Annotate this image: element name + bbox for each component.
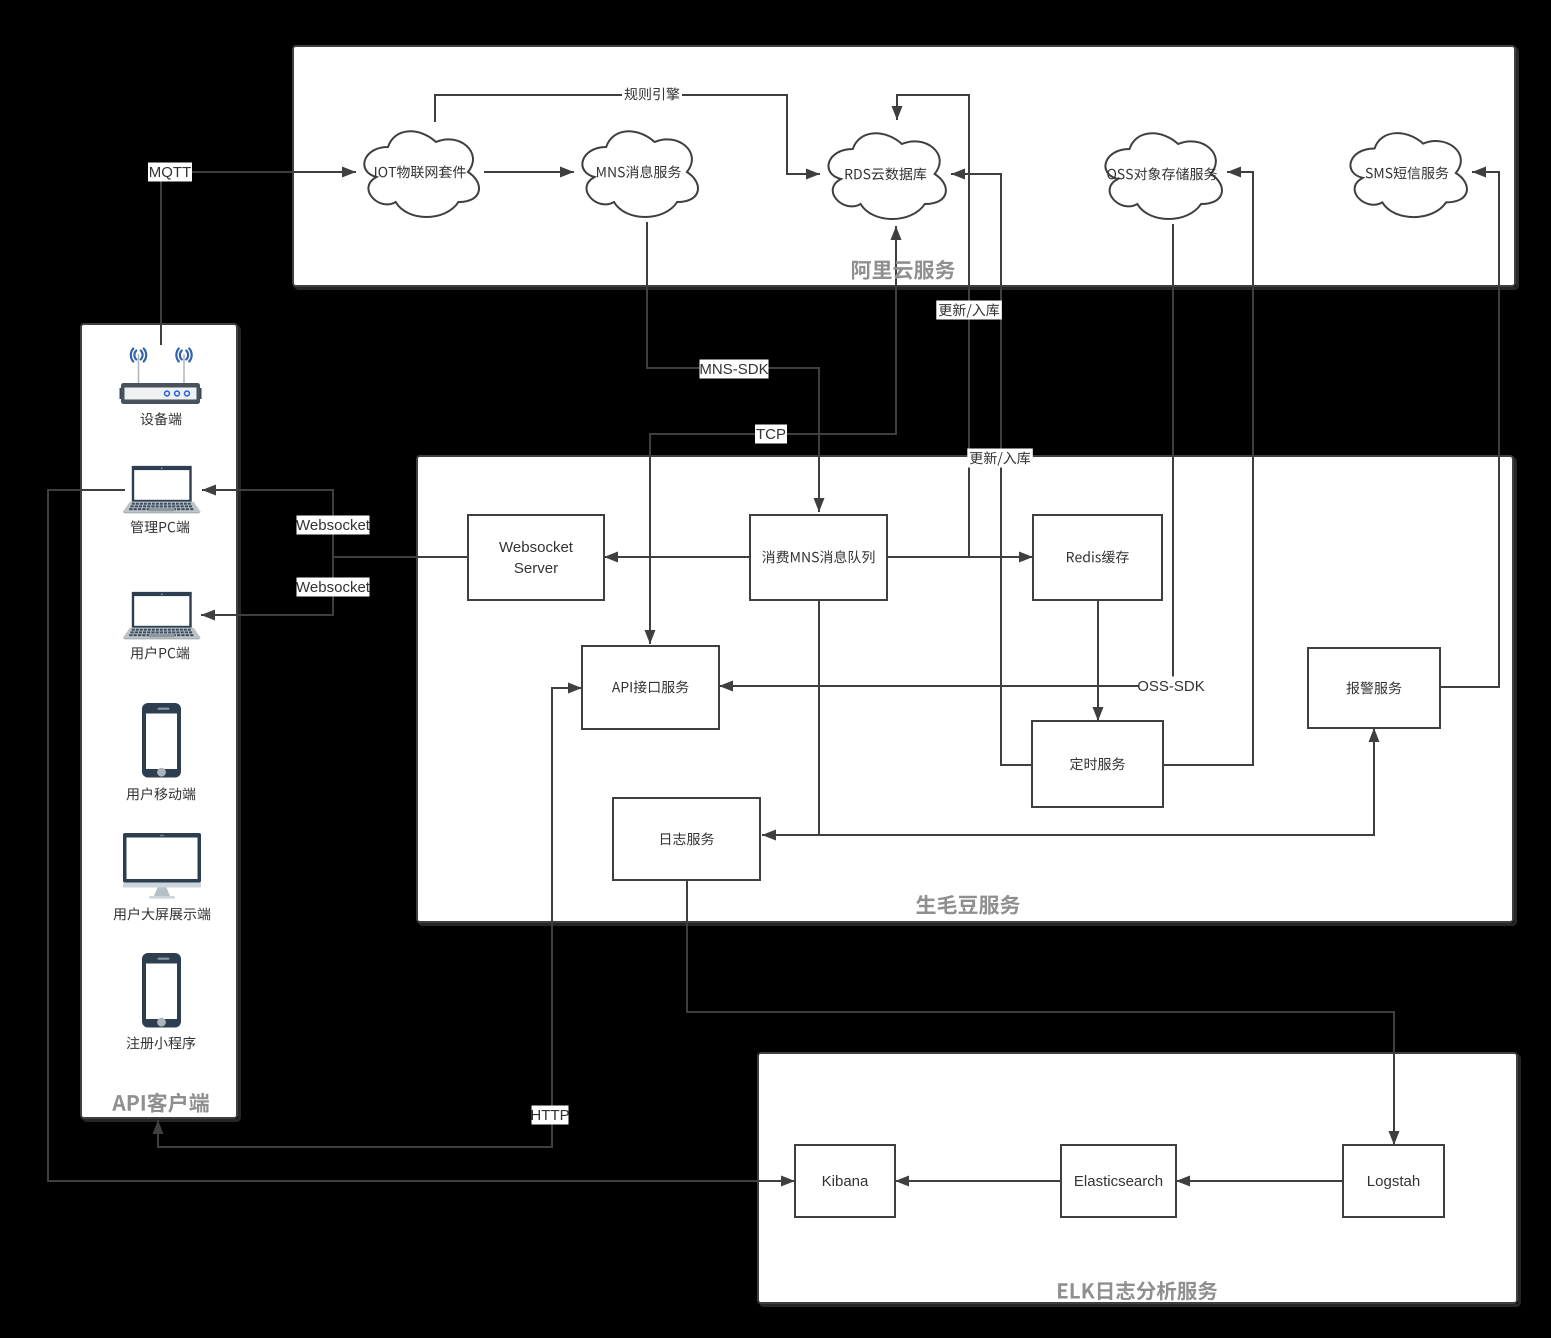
text 设备端 — [141, 412, 182, 425]
text 注册小程序 — [127, 1036, 196, 1049]
container ELK日志分析服务 — [761, 1056, 1520, 1306]
text MNS消息服务 — [597, 165, 681, 178]
text OSS对象存储服务 — [1107, 167, 1217, 180]
svg-text:Kibana: Kibana — [822, 1173, 869, 1190]
text API接口服务 — [612, 680, 689, 693]
wire TCP RDS云数据库<->API接口服务 — [650, 226, 896, 644]
svg-text:OSS-SDK: OSS-SDK — [1137, 678, 1205, 695]
cloud IOT物联网套件 — [364, 131, 479, 217]
node 消费MNS消息队列 — [750, 515, 887, 600]
wire Redis缓存->定时服务 — [1097, 600, 1099, 721]
wire 管理PC端->Kibana — [48, 490, 795, 1181]
cloud OSS对象存储服务 — [1105, 133, 1221, 219]
cloud RDS云数据库 — [829, 133, 946, 219]
label MNS-SDK — [700, 360, 769, 379]
wire 规则引擎 IOT->RDS云数据库 — [435, 95, 820, 174]
label 更新/入库 1 — [936, 301, 1002, 320]
svg-text:MQTT: MQTT — [149, 164, 192, 181]
text SMS短信服务 — [1366, 166, 1449, 179]
wire 消费MNS消息队列->Redis缓存 — [887, 556, 1033, 558]
icon 用户PC端 laptop — [123, 592, 201, 639]
title 生毛豆服务 — [916, 895, 1020, 915]
wire IOT物联网套件->MNS消息服务 — [484, 171, 574, 173]
label MQTT — [148, 163, 192, 182]
svg-text:Elasticsearch: Elasticsearch — [1074, 1173, 1163, 1190]
container 阿里云服务 — [296, 49, 1518, 289]
icon 用户大屏展示端 monitor — [123, 833, 201, 899]
wire 定时服务->OSS对象存储服务 — [1163, 172, 1253, 765]
icon 用户移动端 phone — [142, 703, 181, 778]
title API客户端 — [112, 1093, 209, 1113]
wire 更新/入库 消费MNS消息队列->RDS云数据库 — [887, 95, 969, 557]
wire 消费MNS消息队列->日志服务 — [762, 600, 819, 835]
text 报警服务 — [1346, 681, 1401, 694]
node Logstah — [1343, 1145, 1444, 1217]
icon 管理PC端 laptop — [123, 466, 201, 513]
node API接口服务 — [582, 646, 719, 729]
text 用户PC端 — [131, 646, 190, 659]
text 管理PC端 — [131, 520, 190, 533]
svg-text:Websocket: Websocket — [296, 579, 371, 596]
wire MQTT 设备端->IOT物联网套件 — [161, 172, 356, 345]
label OSS-SDK — [1140, 677, 1203, 696]
text 定时服务 — [1070, 757, 1125, 770]
wire MNS-SDK MNS消息服务->消费MNS消息队列 — [647, 222, 819, 512]
label Websocket 2 — [297, 578, 370, 597]
text Redis缓存 — [1067, 550, 1129, 563]
container 生毛豆服务 — [420, 459, 1516, 925]
svg-text:MNS-SDK: MNS-SDK — [699, 361, 768, 378]
icon 设备端 router — [120, 349, 202, 405]
wire HTTP API接口服务<->API客户端 — [158, 688, 582, 1147]
svg-text:Logstah: Logstah — [1367, 1173, 1420, 1190]
text 用户大屏展示端 — [113, 907, 210, 920]
node Kibana — [795, 1145, 895, 1217]
label TCP — [755, 425, 787, 444]
svg-text:Websocket: Websocket — [296, 517, 371, 534]
wire 报警服务->SMS短信服务 — [1440, 172, 1499, 687]
svg-text:HTTP: HTTP — [530, 1107, 569, 1124]
text 消费MNS消息队列 — [762, 550, 874, 563]
svg-text:TCP: TCP — [756, 426, 786, 443]
cloud MNS消息服务 — [582, 131, 698, 217]
wire OSS-SDK OSS对象存储服务->API接口服务 — [719, 224, 1173, 686]
text IOT物联网套件 — [375, 165, 466, 178]
wire Elasticsearch->Kibana — [895, 1180, 1061, 1182]
container API客户端 — [84, 327, 240, 1121]
node Websocket Server — [468, 515, 604, 600]
node 定时服务 — [1032, 721, 1163, 807]
label 规则引擎 — [622, 85, 682, 104]
text RDS云数据库 — [846, 167, 927, 180]
node 日志服务 — [613, 798, 760, 880]
text 用户移动端 — [126, 787, 195, 800]
wire branch 管理PC端 — [202, 490, 333, 557]
text 日志服务 — [661, 832, 714, 845]
wire branch 用户PC端 — [201, 557, 333, 615]
label 更新/入库 2 — [967, 449, 1033, 468]
title 阿里云服务 — [852, 260, 955, 280]
label HTTP — [532, 1106, 569, 1125]
node 报警服务 — [1308, 648, 1440, 728]
icon 注册小程序 phone — [142, 953, 181, 1028]
node Elasticsearch — [1061, 1145, 1176, 1217]
wire 日志服务->报警服务 — [819, 728, 1374, 835]
wire Logstah->Elasticsearch — [1176, 1180, 1343, 1182]
wire Websocket Server->管理PC端/用户PC端 trunk — [333, 556, 468, 558]
label Websocket 1 — [297, 516, 370, 535]
wire 消费MNS消息队列->Websocket Server — [604, 556, 750, 558]
node Redis缓存 — [1033, 515, 1162, 600]
wire 日志服务->Logstah — [687, 880, 1394, 1145]
cloud SMS短信服务 — [1350, 133, 1466, 217]
title ELK日志分析服务 — [1058, 1281, 1217, 1300]
wire 更新/入库 定时服务->RDS云数据库 — [951, 174, 1032, 765]
